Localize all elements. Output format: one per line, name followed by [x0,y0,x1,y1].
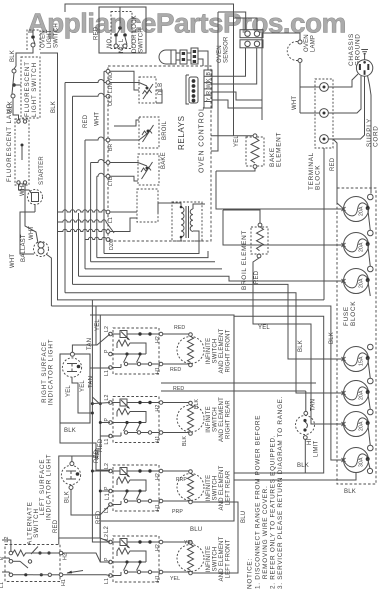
svg-text:BLK: BLK [194,398,200,409]
infinite switch and element right rear [104,386,232,446]
fuse block [337,188,376,484]
fluorescent light switch [8,57,40,120]
clock connector boxes [240,30,263,48]
svg-text:INDICATOR LIGHT: INDICATOR LIGHT [46,454,53,521]
svg-text:INDICATOR LIGHT: INDICATOR LIGHT [48,339,55,406]
svg-text:L1: L1 [105,492,111,500]
svg-text:3. SERVICER PLEASE RETURN DIAG: 3. SERVICER PLEASE RETURN DIAGRAM TO RAN… [277,396,284,589]
svg-text:AND ELEMENT: AND ELEMENT [219,536,225,581]
svg-text:YEL: YEL [234,135,240,147]
svg-text:R: R [206,91,212,95]
svg-text:SWITCH: SWITCH [213,407,219,432]
svg-text:20A: 20A [359,390,365,400]
wire WHT to terminal block [262,33,336,171]
oven control terminals [106,69,115,250]
svg-text:LTB: LTB [108,176,114,186]
ballast [10,184,51,306]
watermark AppliancePartsPros.com [28,8,346,39]
svg-text:15A: 15A [359,356,365,366]
svg-text:L1: L1 [108,217,114,223]
svg-text:BLK: BLK [344,489,356,495]
notice text [247,396,285,589]
svg-text:INFINITE: INFINITE [206,406,212,433]
alternate switch [0,501,83,588]
svg-text:NO: NO [108,72,114,80]
svg-text:DLB: DLB [158,83,164,95]
svg-text:RED: RED [83,114,89,128]
relay BROIL [110,117,168,148]
svg-text:DOOR LOCK: DOOR LOCK [132,15,138,53]
supply cord wires [328,74,379,207]
wire right side drops [161,148,335,473]
svg-text:TAN: TAN [89,376,95,388]
svg-text:TAN: TAN [87,338,93,350]
chassis ground [348,33,373,76]
svg-text:YEL: YEL [258,325,270,331]
svg-text:AND ELEMENT: AND ELEMENT [219,397,225,442]
svg-text:OVEN: OVEN [304,34,310,52]
fuse F1 20A [342,194,374,221]
svg-text:Y: Y [206,97,212,101]
svg-text:WHT: WHT [29,226,35,240]
svg-text:RED: RED [94,26,100,40]
oven lamp [262,33,317,113]
wires indicator left [59,438,111,542]
svg-text:SENSOR: SENSOR [224,36,230,63]
fuse F6 20A [342,409,374,436]
connector 5 pin [186,75,198,104]
svg-text:H1: H1 [61,579,67,586]
fuse F7 30A [342,445,374,472]
infinite switch and element left rear [104,463,232,515]
svg-text:ELEMENT: ELEMENT [276,132,283,167]
wire crossing rows with hops [58,210,115,240]
svg-text:L1: L1 [0,582,5,588]
svg-text:L2: L2 [104,525,110,533]
svg-text:YEL: YEL [95,319,101,331]
svg-text:INFINITE: INFINITE [206,475,212,502]
svg-text:SWITCH: SWITCH [33,508,40,538]
fuse F5 20A [342,378,374,405]
wire feeds to fuses top [216,171,344,245]
wire stubs to switch unit terminals [91,397,110,493]
svg-text:RED: RED [170,367,181,373]
svg-text:RED: RED [174,325,185,331]
svg-text:BLOCK: BLOCK [350,301,357,326]
svg-text:LAMP: LAMP [311,35,317,52]
svg-text:AppliancePartsPros.com: AppliancePartsPros.com [28,8,346,39]
svg-text:YEL: YEL [170,576,180,582]
svg-text:AND ELEMENT: AND ELEMENT [219,328,225,373]
svg-text:LEFT REAR: LEFT REAR [226,470,232,505]
wires between indicators [64,428,100,463]
oven sensor [159,36,230,70]
svg-text:20A: 20A [359,242,365,252]
svg-text:RED: RED [53,519,59,533]
svg-text:SWITCH: SWITCH [213,339,219,364]
svg-text:BALLAST: BALLAST [21,234,27,262]
svg-text:BLK: BLK [51,101,57,113]
svg-text:BLK: BLK [298,340,304,352]
svg-text:RIGHT FRONT: RIGHT FRONT [226,329,232,372]
svg-text:REMOVING WIRE COVER.: REMOVING WIRE COVER. [262,486,269,589]
big solid box console [90,315,234,521]
svg-text:FLUORESCENT: FLUORESCENT [24,61,31,117]
svg-text:FLUORESCENT LAMP: FLUORESCENT LAMP [6,103,13,182]
starter [19,156,46,212]
left surface indicator light [39,454,81,533]
svg-text:LIGHT SWITCH: LIGHT SWITCH [31,62,38,117]
svg-text:20A: 20A [359,278,365,288]
wire bundle left verticals [65,71,104,292]
svg-text:INFINITE: INFINITE [206,338,212,365]
wire BLK vertical bus left [40,53,58,213]
svg-text:FUSE: FUSE [343,306,350,326]
svg-text:BLU: BLU [241,511,247,523]
svg-text:H2: H2 [63,553,69,560]
svg-text:YEL: YEL [184,540,194,546]
wire U4 return to console [192,502,238,573]
svg-text:BLU: BLU [190,527,202,533]
svg-text:STARTER: STARTER [39,156,45,185]
infinite switch and element left front [104,534,232,584]
svg-text:OLS: OLS [108,95,114,106]
svg-text:20A: 20A [359,206,365,216]
svg-text:2. REFER ONLY TO FEATURES EQUI: 2. REFER ONLY TO FEATURES EQUIPPED. [270,435,277,589]
svg-text:CORD: CORD [373,125,380,147]
svg-text:BAKE: BAKE [161,152,167,169]
wires indicator right to switches [60,306,110,456]
svg-text:SWITCH: SWITCH [54,23,60,48]
svg-text:BROIL: BROIL [162,121,168,140]
svg-text:WHT: WHT [10,254,16,268]
fuse right bus wire [234,208,373,495]
svg-text:RIGHT REAR: RIGHT REAR [226,400,232,439]
svg-text:30A: 30A [359,457,365,467]
svg-text:SWITCH: SWITCH [213,547,219,572]
svg-text:YEL: YEL [66,385,72,397]
svg-text:RED: RED [330,157,336,171]
svg-text:NOTICE:: NOTICE: [247,558,254,589]
broil element [223,210,344,424]
svg-text:L1N: L1N [108,83,114,93]
svg-text:HI: HI [307,438,313,445]
oven control box [108,66,211,241]
svg-text:INFINITE: INFINITE [206,546,212,573]
bake element [211,132,283,171]
svg-text:BLK: BLK [10,50,16,62]
svg-text:20A: 20A [359,421,365,431]
relay BAKE [110,152,167,185]
svg-text:PRP: PRP [176,477,187,483]
svg-text:LIGHT: LIGHT [47,29,53,48]
svg-text:BLK: BLK [182,435,188,446]
svg-text:B: B [206,72,212,76]
fuse F3 20A [342,266,374,293]
bus wires nested corners [51,213,344,460]
svg-text:RED: RED [96,510,102,524]
svg-text:WHT: WHT [292,96,298,110]
svg-text:LIMIT: LIMIT [314,441,320,457]
fluorescent lamp [6,103,29,185]
relay box empty [110,189,158,232]
svg-text:1. DISCONNECT RANGE FROM POWER: 1. DISCONNECT RANGE FROM POWER BEFORE [255,415,262,589]
wire feeder TAN vertical [92,300,110,562]
svg-text:BR: BR [108,143,114,151]
wire alternate switch to U4 [63,553,110,576]
oven control connector strip [204,70,212,108]
infinite switch and element right front [104,325,232,376]
svg-text:AND ELEMENT: AND ELEMENT [219,465,225,510]
right surface indicator light [41,339,95,423]
hi limit [296,391,320,473]
fuse F4 15A [342,344,374,371]
svg-text:BLK: BLK [329,332,335,344]
wire BLK to oven light switch [10,47,33,69]
transformer [158,202,205,241]
svg-text:BLOCK: BLOCK [315,165,322,190]
wire top border [65,4,257,136]
svg-text:YEL: YEL [80,380,86,392]
svg-text:BLK: BLK [297,463,309,469]
svg-text:SWITCH: SWITCH [213,476,219,501]
svg-text:RED: RED [254,270,260,284]
svg-text:SWITCH: SWITCH [139,28,145,53]
wires control to clock and lamp [211,12,262,151]
svg-text:OVEN: OVEN [41,30,47,48]
svg-text:RELAYS: RELAYS [177,115,186,150]
svg-text:NO: NO [107,38,113,48]
terminal block [308,79,333,190]
svg-text:RED: RED [173,386,184,392]
svg-text:DZO: DZO [109,239,115,250]
wire stubs to control terminals [65,71,106,176]
svg-text:WHT: WHT [95,112,101,126]
wires alternate switch [2,538,59,574]
svg-text:W: W [206,83,212,88]
relay DLB [110,71,164,103]
svg-text:BLK: BLK [65,491,71,503]
door lock switch [94,7,147,53]
svg-text:PRP: PRP [172,509,183,515]
oven light switch [27,23,60,50]
wire BLU label [190,511,247,533]
svg-text:OVEN CONTROL: OVEN CONTROL [199,106,206,173]
svg-text:BLK: BLK [64,428,76,434]
svg-text:K: K [206,78,212,82]
svg-text:TAN: TAN [311,399,317,411]
svg-text:RED: RED [94,449,100,463]
fuse F2 20A [342,230,374,257]
